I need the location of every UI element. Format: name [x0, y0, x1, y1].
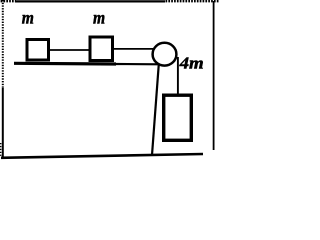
frame left border tick marks near bottom	[0, 143, 2, 156]
svg-text:m: m	[22, 7, 34, 27]
frame top border dotted left segment	[1, 0, 16, 2]
frame left border dotted segment	[2, 0, 4, 89]
frame top border dotted right segment	[166, 0, 220, 2]
wire string from pulley to hanging block	[177, 57, 179, 95]
frame top border solid segment	[15, 0, 165, 2]
pulley	[153, 43, 177, 66]
wire string between block m1 and block m2	[48, 49, 90, 51]
block m1	[27, 40, 49, 61]
block m2	[90, 37, 113, 61]
frame right border	[213, 1, 215, 150]
svg-text:m: m	[93, 8, 105, 28]
frame left border solid segment	[2, 88, 4, 158]
table top surface line	[14, 62, 116, 66]
table right vertical edge	[152, 64, 159, 155]
svg-text:4m: 4m	[179, 54, 204, 73]
wire string between block m2 and pulley	[112, 48, 156, 50]
hanging block 4m	[164, 95, 192, 140]
frame bottom border	[1, 154, 203, 158]
table top surface line right thin part	[115, 63, 160, 66]
